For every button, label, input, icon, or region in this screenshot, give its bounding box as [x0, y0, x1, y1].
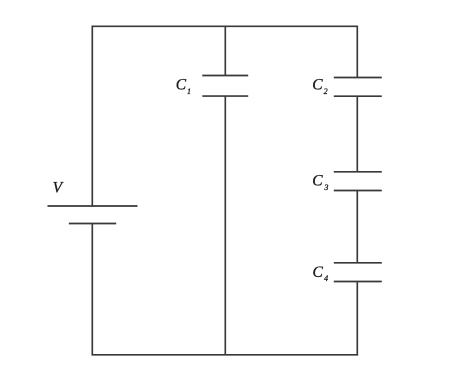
- battery V: [48, 206, 138, 224]
- wire right segment 4: [356, 282, 358, 356]
- capacitor C2: [334, 78, 382, 97]
- svg-text:C: C: [312, 77, 323, 94]
- capacitor C3: [334, 172, 382, 191]
- label C2: [312, 77, 327, 97]
- wire left lower: [91, 224, 93, 356]
- wire top: [92, 25, 358, 27]
- wire left upper: [91, 26, 93, 206]
- wire right segment 2: [356, 96, 358, 172]
- svg-text:V: V: [53, 180, 64, 197]
- wire bottom: [92, 354, 359, 356]
- wire middle lower: [224, 96, 226, 355]
- svg-text:2: 2: [324, 87, 328, 96]
- svg-text:C: C: [176, 77, 187, 94]
- wire right segment 3: [356, 191, 358, 263]
- wire middle upper: [224, 26, 226, 75]
- label C4: [313, 264, 329, 283]
- capacitor C1: [202, 76, 248, 97]
- svg-text:1: 1: [187, 87, 191, 96]
- svg-text:C: C: [313, 264, 324, 281]
- label V: [53, 180, 64, 197]
- svg-text:3: 3: [323, 183, 328, 192]
- svg-text:4: 4: [324, 274, 328, 283]
- label C3: [312, 172, 328, 192]
- capacitor C4: [334, 263, 382, 282]
- svg-text:C: C: [312, 172, 323, 189]
- label C1: [176, 77, 191, 97]
- wire right segment 1: [356, 26, 358, 78]
